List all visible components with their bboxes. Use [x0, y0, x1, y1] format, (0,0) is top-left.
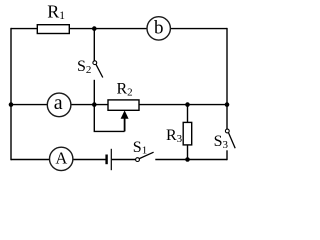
- switch S1 contact circle: [136, 158, 140, 162]
- wire: R2 right terminal to R3 node to right rail: [139, 104, 227, 106]
- junction right rail / middle row: [225, 102, 230, 107]
- ammeter A: [50, 147, 73, 170]
- switch S3 blade: [229, 133, 236, 149]
- svg-text:R1: R1: [47, 2, 65, 23]
- junction R3 top: [185, 102, 190, 107]
- resistor R1: [37, 25, 69, 34]
- wire: S2 lower segment to rheostat node: [93, 80, 95, 105]
- rheostat R2 body: [108, 100, 139, 110]
- wire: top-left from corner to R1: [11, 28, 37, 30]
- svg-text:S1: S1: [133, 139, 147, 157]
- wire: S1 to bottom-right corner: [155, 159, 227, 161]
- wire: left vertical rail: [10, 28, 12, 160]
- wire: R3 bottom lead: [187, 145, 189, 160]
- junction top (R1/S2): [92, 26, 97, 31]
- svg-text:S2: S2: [77, 58, 91, 76]
- wire: right vertical rail top (corner to S3 circle): [226, 28, 228, 129]
- wire: S2 upper segment from top junction: [93, 29, 95, 61]
- svg-text:b: b: [154, 18, 164, 39]
- wire: A-meter to battery: [73, 159, 106, 161]
- wire: bottom-left corner to A-meter: [11, 159, 50, 161]
- wire: R1 to b circle, with junction: [70, 28, 148, 30]
- svg-text:R3: R3: [166, 127, 183, 145]
- wire: battery to S1 circle: [112, 159, 136, 161]
- switch S2 blade: [96, 64, 103, 77]
- wire: middle row left edge to a-meter: [11, 104, 47, 106]
- junction left rail / middle row: [9, 102, 14, 107]
- wire: rheostat wiper loop: [94, 105, 124, 132]
- switch S2 contact circle: [93, 61, 97, 65]
- battery cell short plate: [105, 155, 107, 165]
- switch S3 contact circle: [225, 129, 229, 133]
- wire: b circle to top-right corner: [170, 28, 227, 30]
- battery cell long plate: [110, 149, 112, 170]
- svg-text:A: A: [55, 148, 67, 167]
- svg-text:R2: R2: [117, 81, 133, 99]
- junction R3 bottom: [185, 157, 190, 162]
- rheostat R2 wiper arrow: [124, 118, 126, 132]
- switch S1 blade: [139, 152, 153, 158]
- junction rheostat node: [92, 102, 97, 107]
- wire: right vertical rail bottom stub below S3: [226, 150, 228, 160]
- ammeter a (node a): [47, 93, 71, 117]
- wire: a-meter to rheostat node: [71, 104, 108, 106]
- svg-text:a: a: [54, 92, 63, 114]
- resistor R3: [183, 122, 192, 144]
- svg-text:S3: S3: [214, 133, 229, 151]
- wire: R3 top lead: [187, 105, 189, 123]
- ammeter b (node b): [147, 17, 170, 40]
